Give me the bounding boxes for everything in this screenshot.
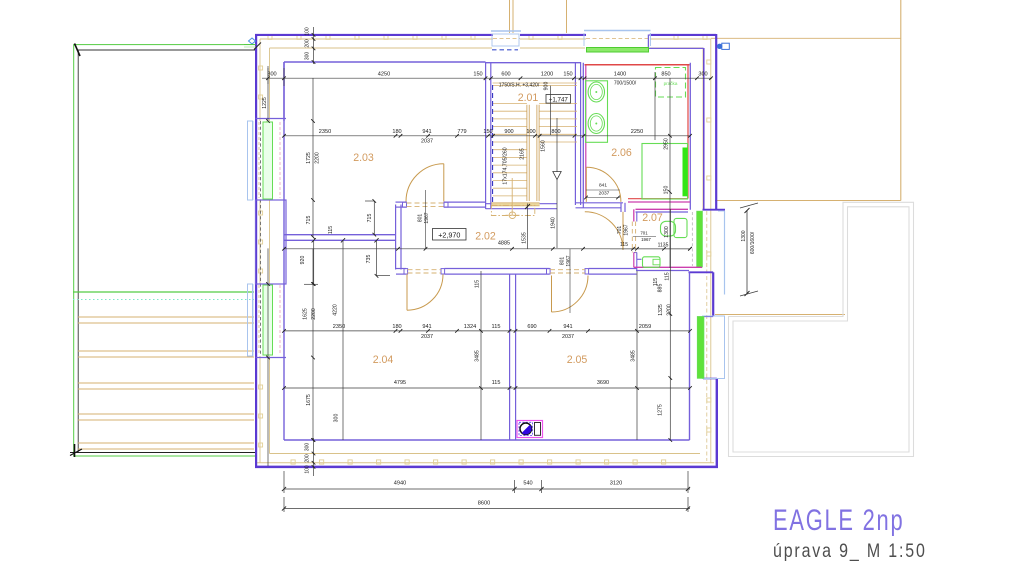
left window A sill dashes	[259, 122, 280, 198]
subtitle uprava	[773, 540, 927, 563]
hall bottom wall jambs east door	[547, 269, 589, 274]
hall bottom wall east segment	[589, 268, 637, 270]
right lower window frame	[697, 316, 724, 379]
bath 2.06 right wall	[688, 63, 690, 210]
svg-text:1325: 1325	[658, 304, 664, 316]
svg-text:2350: 2350	[319, 129, 331, 135]
svg-text:1967: 1967	[424, 212, 430, 223]
top wall inner face right section	[648, 35, 703, 49]
stair landing edge	[493, 83, 577, 86]
svg-text:1275: 1275	[658, 404, 664, 416]
svg-text:115: 115	[653, 278, 659, 286]
stair treads left flight	[493, 104, 527, 196]
outer wall liner tan outer	[260, 38, 711, 462]
stair direction arrow	[553, 118, 561, 180]
washing machine pracka dashed box	[656, 68, 686, 98]
roof edge tan horizontal	[715, 200, 901, 202]
svg-text:850: 850	[661, 72, 670, 78]
outer wall left anchors	[259, 66, 263, 447]
outer wall bottom	[255, 466, 718, 469]
svg-text:pračka: pračka	[664, 81, 678, 86]
left wall pier between windows	[256, 200, 287, 284]
outer wall right upper	[704, 34, 716, 209]
svg-text:2037: 2037	[599, 191, 610, 197]
svg-text:2037: 2037	[562, 334, 574, 340]
left window A frame	[248, 121, 254, 200]
stairwell right wall	[574, 62, 576, 205]
toilet 2.07	[661, 218, 688, 237]
svg-text:735: 735	[366, 255, 372, 264]
left window B sill dashes	[259, 285, 280, 354]
svg-text:2.05: 2.05	[567, 354, 588, 366]
svg-text:1324: 1324	[464, 324, 476, 330]
left window B glass bar	[263, 285, 273, 355]
svg-text:300: 300	[267, 72, 276, 78]
right dim column 2950	[664, 78, 672, 268]
roof lower tan line	[715, 314, 845, 316]
svg-text:1400: 1400	[614, 72, 626, 78]
svg-text:115: 115	[620, 242, 628, 248]
vent symbol top right	[717, 43, 729, 49]
bath 2.06 bottom wall	[583, 199, 690, 208]
roof hidden line above top wall	[711, 37, 901, 39]
mid vertical dim 3485 right	[631, 271, 639, 440]
dim 715 mid	[365, 199, 376, 236]
svg-text:700/1500/: 700/1500/	[614, 81, 637, 87]
terrace corner marks	[70, 44, 82, 458]
svg-text:150: 150	[473, 72, 482, 78]
outer wall bottom liner with anchors	[257, 460, 714, 464]
bath 2.06 left wall	[583, 63, 586, 202]
svg-text:+2,970: +2,970	[438, 230, 460, 239]
svg-text:3485: 3485	[475, 350, 481, 362]
dim row A verticals	[268, 68, 655, 140]
stair stringers	[527, 105, 539, 201]
svg-text:EAGLE 2np: EAGLE 2np	[773, 503, 904, 537]
svg-text:1300: 1300	[664, 226, 670, 238]
svg-text:úprava 9_ M 1:50: úprava 9_ M 1:50	[773, 540, 927, 563]
svg-text:4795: 4795	[394, 380, 406, 386]
svg-text:600/1600/: 600/1600/	[750, 231, 756, 254]
level box 2970	[433, 229, 467, 241]
outer wall liner tan inner	[270, 39, 711, 463]
stair header text	[499, 82, 550, 91]
shower 2.06	[642, 144, 688, 200]
terrace bottom edge	[70, 452, 257, 454]
svg-text:300: 300	[305, 52, 311, 61]
left window B frame	[248, 284, 254, 356]
svg-text:690: 690	[527, 324, 536, 330]
svg-text:600: 600	[501, 72, 510, 78]
left wall lower dim column	[266, 241, 343, 466]
svg-text:150: 150	[563, 72, 572, 78]
left wall hidden dash line	[260, 121, 262, 356]
washbasin 2.07	[643, 257, 661, 268]
svg-text:801: 801	[418, 214, 424, 223]
svg-text:2200: 2200	[311, 308, 317, 320]
right bay window frame	[697, 211, 725, 295]
left outer vertical dim bottom 300 200 100	[305, 438, 316, 476]
wc 2.07 door opening dashes	[632, 222, 635, 253]
svg-text:180: 180	[392, 324, 401, 330]
svg-text:2950: 2950	[664, 138, 670, 150]
wall V1 vertical hall-west	[395, 205, 397, 270]
left window A glass bar	[263, 122, 273, 199]
inner wall face bottom	[284, 439, 690, 441]
svg-text:115: 115	[328, 226, 334, 234]
dim 115 below wc	[653, 278, 659, 286]
door 2.06 arc	[586, 167, 621, 202]
svg-text:150: 150	[483, 129, 492, 135]
bottom dim row 2	[282, 497, 690, 512]
outer wall left	[255, 35, 257, 468]
wc door label	[617, 224, 630, 235]
svg-text:3485: 3485	[631, 350, 637, 362]
svg-text:200: 200	[305, 39, 311, 48]
svg-text:1300: 1300	[741, 230, 747, 241]
svg-text:100: 100	[305, 27, 311, 36]
svg-text:180: 180	[392, 129, 401, 135]
svg-text:300: 300	[334, 414, 340, 423]
svg-text:300: 300	[305, 443, 311, 452]
svg-text:115: 115	[475, 280, 481, 288]
svg-text:3120: 3120	[610, 481, 622, 487]
wc 2.07 top wall	[636, 209, 689, 212]
right wall dim column	[658, 271, 673, 442]
inner wall face right lower	[689, 272, 691, 440]
inner wall face left	[283, 62, 285, 440]
svg-text:701: 701	[640, 231, 648, 236]
svg-text:1967: 1967	[566, 255, 572, 266]
svg-text:8600: 8600	[478, 500, 490, 506]
svg-text:300: 300	[698, 72, 707, 78]
svg-text:1625: 1625	[303, 308, 309, 320]
title EAGLE 2np	[773, 503, 904, 537]
outer wall top anchors	[268, 35, 707, 39]
svg-text:100: 100	[526, 129, 535, 135]
outer wall right bay jog	[689, 210, 726, 273]
svg-text:100: 100	[305, 465, 311, 474]
dim row A	[262, 72, 713, 80]
bath 2.06 top wall red	[585, 64, 690, 66]
roof edge tan vertical	[900, 0, 902, 201]
corner tick top left	[254, 43, 261, 50]
svg-text:2037: 2037	[421, 139, 433, 145]
svg-text:2165: 2165	[520, 148, 526, 160]
svg-text:200: 200	[305, 454, 311, 463]
svg-text:2059: 2059	[639, 324, 651, 330]
stair flight bottom edge thick	[491, 178, 539, 215]
svg-text:3690: 3690	[597, 380, 609, 386]
svg-text:115: 115	[665, 272, 671, 280]
svg-text:801: 801	[560, 257, 566, 266]
terrace deck boards	[78, 317, 254, 449]
dim row E	[282, 380, 692, 390]
top window 1 frame	[491, 31, 521, 50]
door label hall west	[418, 190, 431, 249]
svg-text:1560: 1560	[541, 140, 547, 152]
wall 2.03/2.04	[284, 235, 396, 243]
svg-text:1750/S.H. +3,420/: 1750/S.H. +3,420/	[499, 83, 540, 89]
svg-text:715: 715	[306, 216, 312, 225]
svg-text:+1,747: +1,747	[549, 96, 569, 103]
bath door dims	[584, 183, 620, 200]
stairwell left wall	[485, 62, 487, 209]
svg-text:1940: 1940	[551, 217, 557, 229]
outer wall top	[255, 34, 716, 36]
svg-text:1967: 1967	[624, 224, 630, 235]
door 2.04 arc	[407, 274, 443, 310]
left wall dim column	[262, 66, 270, 123]
svg-text:779: 779	[457, 129, 466, 135]
left outer vertical dim 100 200 300	[305, 27, 316, 64]
wc 2.07 bottom wall	[634, 267, 702, 270]
washing machine icon 2.05	[517, 421, 543, 438]
stairwell top wall	[486, 62, 582, 64]
washbasin counter 2.06	[586, 81, 608, 143]
svg-text:1725: 1725	[306, 152, 312, 164]
door corridor arc	[585, 212, 623, 250]
svg-text:2.03: 2.03	[353, 152, 374, 164]
svg-text:2200: 2200	[315, 152, 321, 164]
svg-text:4220: 4220	[333, 304, 339, 316]
svg-text:941: 941	[422, 324, 431, 330]
hall bottom wall jambs west door	[404, 269, 445, 274]
svg-text:1135: 1135	[658, 243, 669, 249]
outer wall right anchors	[707, 60, 711, 432]
svg-text:1225: 1225	[262, 97, 268, 109]
svg-text:900: 900	[544, 82, 550, 91]
mid vertical dim 3485 left	[475, 271, 483, 440]
dim row D	[282, 324, 692, 340]
svg-text:841: 841	[599, 183, 607, 189]
dim 1940	[551, 180, 558, 249]
stair dim 2165	[520, 148, 526, 160]
svg-text:2037: 2037	[421, 334, 433, 340]
svg-text:900: 900	[504, 129, 513, 135]
stair dim 1560	[541, 86, 551, 152]
left wall pier top	[256, 62, 287, 121]
door label hall east	[560, 249, 573, 313]
svg-text:701: 701	[617, 226, 623, 235]
stairwell bottom wall	[486, 203, 558, 205]
svg-text:540: 540	[523, 481, 532, 487]
svg-text:941: 941	[563, 324, 572, 330]
svg-text:2.06: 2.06	[611, 147, 632, 159]
top window 2 frame	[584, 31, 651, 53]
bottom dim row 1	[282, 471, 690, 493]
hall bottom wall west segment	[396, 268, 406, 270]
bay inner dashed line	[691, 212, 693, 266]
wc dims	[610, 209, 692, 271]
svg-text:2200: 2200	[667, 304, 673, 316]
left wall pier bottom	[256, 357, 287, 359]
hall bottom wall mid segment	[445, 268, 550, 270]
hall top wall with door jambs	[396, 202, 486, 207]
svg-text:17x174,705/260: 17x174,705/260	[503, 147, 509, 184]
door 2.05 arc	[552, 276, 589, 313]
wall 2.04/2.05 divider	[509, 274, 511, 440]
bay window dim 1300	[740, 203, 758, 296]
svg-text:4250: 4250	[378, 72, 390, 78]
svg-text:800: 800	[551, 129, 560, 135]
stair hidden landing dash-dot box	[491, 205, 534, 218]
wc 2.07 left wall	[634, 209, 642, 270]
svg-text:115: 115	[492, 380, 501, 386]
svg-text:1535: 1535	[522, 232, 528, 244]
svg-text:2.01: 2.01	[518, 92, 539, 104]
svg-text:920: 920	[300, 256, 306, 265]
svg-text:2250: 2250	[631, 129, 643, 135]
stair treads right flight	[539, 104, 577, 143]
chimney flue lines above wall	[510, 0, 567, 33]
svg-text:4940: 4940	[394, 481, 406, 487]
svg-text:941: 941	[422, 129, 431, 135]
stair handrail dashed	[492, 85, 494, 203]
corridor wall below stairwell	[576, 203, 626, 212]
outer wall right below bay	[703, 272, 717, 467]
terrace mid green line	[73, 292, 254, 300]
svg-text:1675: 1675	[306, 394, 312, 406]
dim row B	[282, 129, 692, 145]
blue diamond top left	[249, 38, 256, 44]
left room dim column 2.03	[306, 78, 334, 239]
svg-text:2.07: 2.07	[642, 212, 663, 224]
svg-text:2.04: 2.04	[373, 354, 394, 366]
dim 735 below wall	[366, 241, 390, 278]
svg-text:715: 715	[367, 214, 373, 223]
svg-text:4885: 4885	[498, 240, 510, 246]
svg-text:2.02: 2.02	[475, 231, 496, 243]
roof gray outline	[729, 202, 914, 456]
svg-text:1967: 1967	[641, 237, 651, 242]
svg-text:115: 115	[492, 324, 501, 330]
dim row C	[282, 204, 692, 251]
door 2.03 east arc	[406, 164, 444, 202]
svg-text:2350: 2350	[333, 324, 345, 330]
terrace outline	[74, 45, 256, 456]
svg-text:150: 150	[664, 186, 670, 195]
green stub lines top left	[244, 45, 256, 48]
level box 1747	[546, 95, 571, 104]
svg-text:1200: 1200	[541, 72, 553, 78]
inner wall face top	[284, 61, 486, 63]
